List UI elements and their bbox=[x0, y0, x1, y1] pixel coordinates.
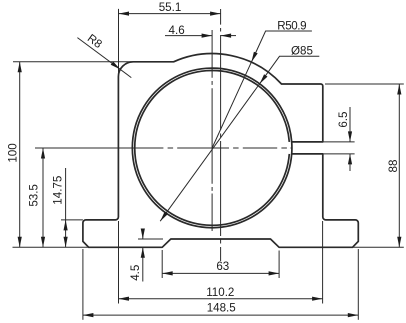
svg-text:6.5: 6.5 bbox=[337, 112, 350, 128]
R50.9 leader line bbox=[212, 31, 312, 148]
53.5 dim line bbox=[42, 148, 44, 247]
svg-text:14.75: 14.75 bbox=[52, 176, 65, 205]
svg-text:Ø85: Ø85 bbox=[291, 45, 313, 58]
base extension right bbox=[353, 246, 404, 248]
6.5 arrows (outside) bbox=[348, 131, 352, 142]
centerlines bbox=[35, 9, 292, 261]
step extension left (14.75) bbox=[61, 219, 83, 221]
svg-text:88: 88 bbox=[387, 160, 400, 173]
vertical body centerline bbox=[220, 9, 222, 261]
100 arrows bbox=[18, 62, 22, 73]
110.2 right extension bbox=[322, 221, 324, 304]
svg-text:R50.9: R50.9 bbox=[277, 20, 306, 33]
100 dim line bbox=[19, 62, 21, 248]
53.5 arrows bbox=[41, 148, 45, 159]
part outline bbox=[83, 54, 358, 248]
55.1 dim line bbox=[119, 13, 221, 15]
110.2 dim line bbox=[119, 298, 323, 300]
4.6 dim line left tail bbox=[165, 35, 212, 37]
55.1 left extension bbox=[118, 9, 120, 77]
svg-text:100: 100 bbox=[7, 143, 20, 162]
top-right edge extension (88) bbox=[325, 83, 404, 85]
4.5 arrows (outside) bbox=[141, 229, 145, 240]
55.1 arrows bbox=[119, 12, 130, 16]
slit bottom extension bbox=[323, 153, 355, 155]
14.75 arrows bbox=[64, 220, 68, 231]
88 arrows bbox=[397, 84, 401, 95]
4.6 dim line right tail bbox=[221, 35, 236, 37]
110.2 left extension bbox=[118, 221, 120, 304]
4.5 upper tail bbox=[142, 229, 144, 239]
6.5 lower tail bbox=[349, 154, 351, 171]
svg-text:55.1: 55.1 bbox=[159, 1, 182, 14]
svg-text:148.5: 148.5 bbox=[207, 302, 236, 315]
63 dim line bbox=[162, 272, 279, 274]
relief extension left (4.5) bbox=[138, 238, 163, 240]
svg-text:4.6: 4.6 bbox=[169, 24, 185, 37]
vertical bore centerline bbox=[211, 30, 213, 231]
63 right extension bbox=[278, 251, 280, 279]
63 left extension bbox=[161, 250, 163, 278]
63 arrows bbox=[162, 271, 173, 275]
svg-text:110.2: 110.2 bbox=[206, 286, 234, 299]
horizontal bore centerline bbox=[35, 147, 292, 149]
4.6 arrows (outside) bbox=[202, 34, 213, 38]
diameter 85 arrow upper bbox=[260, 74, 268, 84]
diameter 85 arrow lower bbox=[160, 212, 168, 222]
top edge extension (left, for 100 and 55.1) bbox=[13, 61, 133, 63]
R50.9 arrow at arc bbox=[251, 52, 257, 62]
svg-text:63: 63 bbox=[216, 260, 229, 273]
svg-text:4.5: 4.5 bbox=[129, 265, 142, 281]
6.5 upper tail bbox=[349, 107, 351, 142]
110.2 arrows bbox=[119, 297, 130, 301]
bore circle inner (clipped at slit) bbox=[135, 71, 290, 226]
base extension left bbox=[13, 246, 89, 248]
88 dim line bbox=[398, 84, 400, 247]
slit top extension bbox=[323, 141, 355, 143]
148.5 left extension bbox=[82, 249, 84, 320]
bore circle outer (clipped at slit) bbox=[132, 68, 291, 228]
148.5 dim line bbox=[83, 314, 358, 316]
diameter 85 leader line bbox=[160, 56, 319, 221]
14.75 dim line with tail above bbox=[65, 168, 67, 247]
R8 leader line bbox=[77, 38, 131, 78]
148.5 right extension bbox=[357, 249, 359, 320]
4.5 lower tail bbox=[142, 247, 144, 281]
svg-text:53.5: 53.5 bbox=[28, 184, 41, 207]
R8 arrow bbox=[111, 62, 121, 70]
148.5 arrows bbox=[83, 313, 94, 317]
